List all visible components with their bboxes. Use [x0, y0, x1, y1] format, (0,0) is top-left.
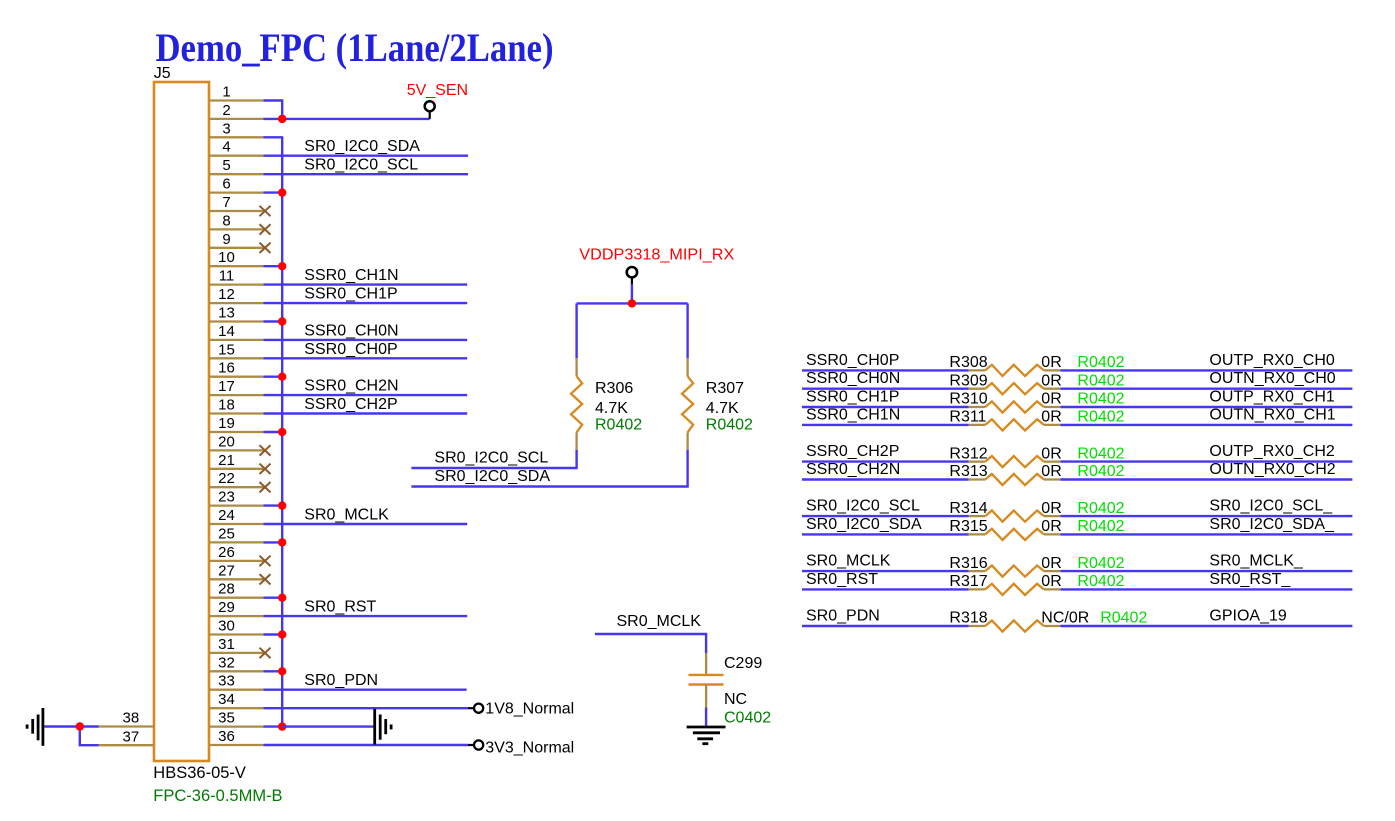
svg-text:SR0_I2C0_SCL: SR0_I2C0_SCL: [304, 157, 418, 174]
svg-text:SR0_I2C0_SDA: SR0_I2C0_SDA: [434, 468, 550, 485]
junction pins 37/38: [76, 722, 84, 730]
svg-text:21: 21: [218, 452, 235, 469]
svg-text:R314: R314: [949, 500, 987, 517]
svg-text:SR0_I2C0_SCL_: SR0_I2C0_SCL_: [1209, 498, 1333, 515]
wire SR0_I2C0_SDA to R307: [411, 485, 688, 487]
pin 24: [209, 507, 264, 524]
wire SSR0_CH0N (left of R309): [802, 388, 969, 390]
pin 9: [209, 231, 271, 253]
svg-text:10: 10: [218, 249, 235, 266]
svg-text:24: 24: [218, 507, 235, 524]
junction pin 32: [278, 667, 286, 675]
capacitor C299: [689, 653, 724, 708]
wire pin 38 to ground: [44, 725, 98, 727]
wire SR0_PDN (pin 33): [264, 689, 467, 691]
svg-text:SR0_I2C0_SDA: SR0_I2C0_SDA: [304, 138, 420, 155]
ground (right of connector): [375, 709, 391, 745]
svg-text:SR0_MCLK_: SR0_MCLK_: [1209, 553, 1303, 570]
svg-text:SSR0_CH2P: SSR0_CH2P: [304, 396, 397, 413]
pin 17: [209, 378, 264, 395]
svg-text:9: 9: [222, 231, 230, 248]
svg-text:0R: 0R: [1041, 391, 1061, 408]
wire pin 35 to GND bus: [264, 725, 284, 727]
resistor R312: [969, 456, 1061, 467]
svg-text:OUTN_RX0_CH1: OUTN_RX0_CH1: [1209, 406, 1335, 423]
svg-text:16: 16: [218, 360, 235, 377]
pin 37: [99, 728, 154, 745]
junction pin 2: [278, 115, 286, 123]
wire VDD horizontal: [577, 302, 688, 304]
wire pin1 to pin2 (5V_SEN net): [264, 101, 283, 119]
svg-text:R309: R309: [949, 372, 987, 389]
svg-text:SSR0_CH0N: SSR0_CH0N: [304, 322, 398, 339]
resistor R313: [969, 474, 1061, 485]
pin 38: [99, 710, 154, 727]
pin 8: [209, 212, 271, 234]
pin 10: [209, 249, 264, 266]
wire pin 28 to GND bus: [264, 597, 284, 599]
pin 35: [209, 710, 264, 727]
svg-text:C299: C299: [724, 655, 762, 672]
resistor R307: [682, 303, 693, 486]
wire SSR0_CH0P (pin 15): [264, 357, 468, 359]
pin 30: [209, 618, 264, 635]
svg-text:0R: 0R: [1041, 409, 1061, 426]
svg-text:SSR0_CH1P: SSR0_CH1P: [304, 286, 397, 303]
svg-text:2: 2: [222, 102, 230, 119]
wire SR0_MCLK (pin 24): [264, 523, 468, 525]
svg-text:R0402: R0402: [1077, 463, 1124, 480]
wire VDD vertical: [631, 284, 633, 303]
wire SSR0_CH0P (left of R308): [802, 369, 969, 371]
pin 26: [209, 544, 271, 566]
svg-text:SR0_I2C0_SCL: SR0_I2C0_SCL: [434, 450, 548, 467]
svg-text:R307: R307: [706, 380, 744, 397]
pin 31: [209, 636, 271, 658]
terminal 1V8_Normal circle: [468, 704, 483, 713]
svg-text:27: 27: [218, 562, 235, 579]
pin 12: [209, 286, 264, 303]
svg-text:5: 5: [222, 157, 230, 174]
GND bus vertical wire: [281, 137, 283, 726]
terminal 3V3_Normal circle: [468, 740, 483, 749]
wire SR0_I2C0_SDA (pin 4): [264, 154, 469, 156]
wire pin 10 to GND bus: [264, 265, 284, 267]
svg-text:NC: NC: [724, 691, 747, 708]
svg-text:SR0_RST: SR0_RST: [806, 571, 878, 588]
power port VDDP3318_MIPI_RX: [627, 267, 637, 284]
svg-text:R0402: R0402: [1077, 573, 1124, 590]
svg-text:R311: R311: [949, 409, 986, 426]
ground (C299): [687, 727, 726, 744]
pin 34: [209, 691, 264, 708]
svg-text:SSR0_CH0P: SSR0_CH0P: [806, 352, 899, 369]
svg-text:R318: R318: [949, 610, 987, 627]
junction pin 16: [278, 373, 286, 381]
wire SR0_PDN (left of R318): [802, 625, 969, 627]
wire SR0_I2C0_SDA (left of R315): [802, 533, 969, 535]
pin 19: [209, 415, 264, 432]
svg-text:NC/0R: NC/0R: [1041, 610, 1089, 627]
wire SSR0_CH2N (left of R313): [802, 478, 969, 480]
svg-text:OUTN_RX0_CH2: OUTN_RX0_CH2: [1209, 461, 1335, 478]
wire pin 34 (1V8_Normal): [264, 707, 469, 709]
svg-text:0R: 0R: [1041, 354, 1061, 371]
wire SSR0_CH1N (left of R311): [802, 424, 969, 426]
svg-text:R0402: R0402: [595, 417, 642, 434]
wire pin 32 to GND bus: [264, 670, 284, 672]
wire SR0_MCLK_ (right of R316): [1060, 570, 1352, 572]
svg-text:SSR0_CH2P: SSR0_CH2P: [806, 443, 899, 460]
resistor R306: [571, 303, 582, 468]
connector J5 body: [154, 82, 209, 761]
svg-text:0R: 0R: [1041, 372, 1061, 389]
junction pin 13: [278, 317, 286, 325]
svg-text:33: 33: [218, 673, 235, 690]
svg-text:0R: 0R: [1041, 518, 1061, 535]
pin 29: [209, 599, 264, 616]
svg-text:SR0_PDN: SR0_PDN: [304, 672, 378, 689]
svg-text:R0402: R0402: [1077, 445, 1124, 462]
pin 16: [209, 360, 264, 377]
resistor R308: [969, 365, 1061, 376]
pin 3: [209, 120, 264, 137]
wire SSR0_CH2N (pin 17): [264, 394, 468, 396]
wire pin 37 to junction: [80, 727, 99, 746]
wire SR0_RST (left of R317): [802, 588, 969, 590]
pin 2: [209, 102, 264, 119]
svg-text:R313: R313: [949, 463, 987, 480]
svg-text:R0402: R0402: [706, 417, 753, 434]
svg-text:0R: 0R: [1041, 463, 1061, 480]
wire OUTP_RX0_CH0 (right of R308): [1060, 369, 1352, 371]
svg-text:4: 4: [222, 139, 230, 156]
svg-text:SR0_I2C0_SDA_: SR0_I2C0_SDA_: [1209, 516, 1335, 533]
svg-text:R317: R317: [949, 573, 987, 590]
junction pin 10: [278, 262, 286, 270]
pin 4: [209, 139, 264, 156]
svg-text:OUTN_RX0_CH0: OUTN_RX0_CH0: [1209, 370, 1335, 387]
svg-text:37: 37: [123, 728, 140, 745]
svg-text:25: 25: [218, 525, 235, 542]
svg-text:31: 31: [218, 636, 235, 653]
svg-text:R0402: R0402: [1077, 518, 1124, 535]
wire SR0_RST (pin 29): [264, 615, 468, 617]
resistor R316: [969, 566, 1061, 577]
svg-text:11: 11: [219, 268, 235, 285]
svg-text:3V3_Normal: 3V3_Normal: [485, 740, 574, 757]
wire SSR0_CH2P (pin 18): [264, 412, 468, 414]
resistor R310: [969, 401, 1061, 412]
wire OUTP_RX0_CH1 (right of R310): [1060, 406, 1352, 408]
wire OUTP_RX0_CH2 (right of R312): [1060, 460, 1352, 462]
pin 7: [209, 194, 271, 216]
svg-text:18: 18: [218, 397, 235, 414]
wire SR0_I2C0_SCL_ (right of R314): [1060, 515, 1352, 517]
svg-text:FPC-36-0.5MM-B: FPC-36-0.5MM-B: [153, 787, 282, 805]
svg-text:28: 28: [218, 581, 235, 598]
svg-text:SR0_RST_: SR0_RST_: [1209, 571, 1291, 588]
wire SSR0_CH1P (left of R310): [802, 406, 969, 408]
svg-text:SR0_MCLK: SR0_MCLK: [304, 507, 389, 524]
svg-text:5V_SEN: 5V_SEN: [407, 82, 468, 99]
pin 15: [209, 341, 264, 358]
svg-text:J5: J5: [154, 65, 171, 82]
svg-text:34: 34: [218, 691, 235, 708]
svg-text:R0402: R0402: [1100, 610, 1147, 627]
svg-text:C0402: C0402: [724, 710, 771, 727]
wire SR0_I2C0_SCL (left of R314): [802, 515, 969, 517]
svg-text:SR0_MCLK: SR0_MCLK: [806, 553, 891, 570]
resistor R314: [969, 511, 1061, 522]
ground (left): [27, 708, 43, 746]
svg-text:SSR0_CH1N: SSR0_CH1N: [806, 406, 900, 423]
wire OUTN_RX0_CH0 (right of R309): [1060, 388, 1352, 390]
junction pin 28: [278, 594, 286, 602]
svg-text:15: 15: [218, 341, 235, 358]
resistor R309: [969, 383, 1061, 394]
svg-text:R306: R306: [595, 380, 633, 397]
wire SR0_I2C0_SCL (pin 5): [264, 173, 469, 175]
wire SR0_I2C0_SCL to R306: [411, 467, 577, 469]
pin 1: [209, 84, 264, 101]
svg-text:OUTP_RX0_CH2: OUTP_RX0_CH2: [1209, 443, 1334, 460]
svg-text:HBS36-05-V: HBS36-05-V: [153, 764, 246, 782]
wire GPIOA_19 (right of R318): [1060, 625, 1352, 627]
svg-text:36: 36: [218, 728, 235, 745]
svg-text:OUTP_RX0_CH0: OUTP_RX0_CH0: [1209, 352, 1334, 369]
svg-text:SSR0_CH1P: SSR0_CH1P: [806, 389, 899, 406]
svg-text:1: 1: [222, 84, 230, 101]
pin 14: [209, 323, 264, 340]
pin 28: [209, 581, 264, 598]
svg-text:8: 8: [222, 212, 230, 229]
svg-text:R0402: R0402: [1077, 500, 1124, 517]
junction pin 25: [278, 538, 286, 546]
svg-text:SSR0_CH0P: SSR0_CH0P: [304, 341, 397, 358]
svg-text:R316: R316: [949, 555, 987, 572]
svg-text:R308: R308: [949, 354, 987, 371]
wire SR0_MCLK (left of R316): [802, 570, 969, 572]
pin 32: [209, 654, 264, 671]
wire OUTN_RX0_CH1 (right of R311): [1060, 424, 1352, 426]
svg-text:22: 22: [218, 470, 235, 487]
svg-text:R0402: R0402: [1077, 372, 1124, 389]
svg-text:4.7K: 4.7K: [595, 400, 628, 417]
svg-text:GPIOA_19: GPIOA_19: [1209, 608, 1286, 625]
pin 18: [209, 397, 264, 414]
wire pin 3 to GND bus: [264, 136, 284, 138]
svg-text:7: 7: [222, 194, 230, 211]
svg-text:OUTP_RX0_CH1: OUTP_RX0_CH1: [1209, 389, 1334, 406]
wire SSR0_CH2P (left of R312): [802, 460, 969, 462]
svg-text:12: 12: [218, 286, 235, 303]
wire SSR0_CH1N (pin 11): [264, 283, 468, 285]
wire pin 19 to GND bus: [264, 431, 284, 433]
svg-text:0R: 0R: [1041, 555, 1061, 572]
svg-text:20: 20: [218, 433, 235, 450]
svg-text:SSR0_CH2N: SSR0_CH2N: [806, 461, 900, 478]
svg-text:14: 14: [218, 323, 235, 340]
svg-text:Demo_FPC (1Lane/2Lane): Demo_FPC (1Lane/2Lane): [156, 25, 554, 70]
wire SSR0_CH0N (pin 14): [264, 339, 468, 341]
wire OUTN_RX0_CH2 (right of R313): [1060, 478, 1352, 480]
svg-text:R0402: R0402: [1077, 354, 1124, 371]
svg-text:35: 35: [218, 710, 235, 727]
svg-text:19: 19: [218, 415, 235, 432]
resistor R315: [969, 529, 1061, 540]
svg-text:32: 32: [218, 654, 235, 671]
svg-text:13: 13: [218, 305, 235, 322]
junction pin 30: [278, 630, 286, 638]
wire SSR0_CH1P (pin 12): [264, 302, 468, 304]
svg-text:SR0_RST: SR0_RST: [304, 599, 376, 616]
svg-text:30: 30: [218, 618, 235, 635]
pin 5: [209, 157, 264, 174]
resistor R311: [969, 419, 1061, 430]
resistor R317: [969, 584, 1061, 595]
svg-text:VDDP3318_MIPI_RX: VDDP3318_MIPI_RX: [579, 246, 734, 263]
svg-text:0R: 0R: [1041, 445, 1061, 462]
svg-text:SR0_MCLK: SR0_MCLK: [617, 613, 702, 630]
svg-text:29: 29: [218, 599, 235, 616]
svg-text:38: 38: [123, 710, 140, 727]
junction pin 2: [278, 115, 286, 123]
wire pin 16 to GND bus: [264, 376, 284, 378]
svg-text:SSR0_CH1N: SSR0_CH1N: [304, 267, 398, 284]
pin 23: [209, 489, 264, 506]
wire pin 23 to GND bus: [264, 504, 284, 506]
wire SR0_I2C0_SDA_ (right of R315): [1060, 533, 1352, 535]
svg-text:R0402: R0402: [1077, 391, 1124, 408]
svg-text:3: 3: [222, 120, 230, 137]
svg-text:R310: R310: [949, 391, 987, 408]
svg-text:R0402: R0402: [1077, 555, 1124, 572]
svg-text:SR0_I2C0_SCL: SR0_I2C0_SCL: [806, 498, 920, 515]
svg-text:17: 17: [218, 378, 235, 395]
svg-text:6: 6: [222, 176, 230, 193]
wire pin 30 to GND bus: [264, 633, 284, 635]
pin 36: [209, 728, 264, 745]
pin 22: [209, 470, 271, 492]
svg-text:R0402: R0402: [1077, 409, 1124, 426]
terminal 5V_SEN circle: [425, 101, 435, 119]
wire 5V_SEN horizontal: [282, 118, 430, 120]
pin 20: [209, 433, 271, 455]
wire pin 36 (3V3_Normal): [264, 744, 469, 746]
svg-text:1V8_Normal: 1V8_Normal: [485, 701, 574, 718]
junction VDD: [628, 299, 636, 307]
svg-text:SSR0_CH2N: SSR0_CH2N: [304, 378, 398, 395]
svg-text:0R: 0R: [1041, 573, 1061, 590]
wire pin 25 to GND bus: [264, 541, 284, 543]
pin 13: [209, 305, 264, 322]
junction pin 23: [278, 501, 286, 509]
pin 21: [209, 452, 271, 474]
pin 25: [209, 525, 264, 542]
svg-text:R315: R315: [949, 518, 987, 535]
svg-text:26: 26: [218, 544, 235, 561]
wire SR0_MCLK to C299: [595, 634, 706, 654]
svg-text:23: 23: [218, 489, 235, 506]
pin 27: [209, 562, 271, 584]
wire pin 35 to ground: [282, 725, 373, 727]
svg-text:SSR0_CH0N: SSR0_CH0N: [806, 370, 900, 387]
svg-text:0R: 0R: [1041, 500, 1061, 517]
junction pin 6: [278, 188, 286, 196]
svg-text:4.7K: 4.7K: [706, 400, 739, 417]
wire C299 to ground: [705, 708, 707, 727]
svg-text:SR0_I2C0_SDA: SR0_I2C0_SDA: [806, 516, 922, 533]
wire SR0_RST_ (right of R317): [1060, 588, 1352, 590]
svg-text:SR0_PDN: SR0_PDN: [806, 608, 880, 625]
pin 6: [209, 176, 264, 193]
wire pin 6 to GND bus: [264, 191, 284, 193]
pin 11: [209, 268, 264, 285]
resistor R318: [969, 620, 1061, 631]
pin 33: [209, 673, 264, 690]
wire pin 13 to GND bus: [264, 320, 284, 322]
svg-text:R312: R312: [949, 445, 987, 462]
junction pin 35: [278, 722, 286, 730]
junction pin 19: [278, 428, 286, 436]
